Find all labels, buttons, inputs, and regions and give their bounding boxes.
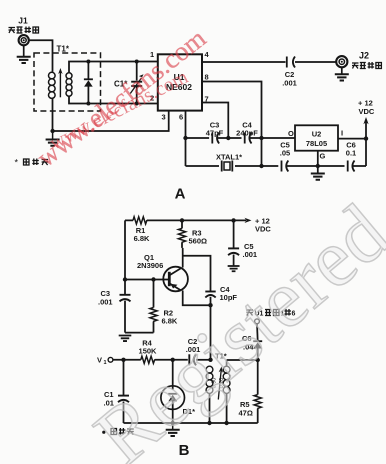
- svg-text:78L05: 78L05: [306, 139, 327, 148]
- junction C5 top: [231, 218, 235, 222]
- T1 primary winding: [49, 72, 56, 99]
- junction R3 top: [180, 218, 184, 222]
- wire pin8: [202, 82, 262, 139]
- svg-text:J2: J2: [359, 51, 369, 61]
- capacitor C6 (B): [256, 324, 259, 341]
- svg-text:*: *: [15, 158, 19, 168]
- node base/R2 junction: [151, 277, 155, 281]
- varactor diode in T1 box: [87, 62, 89, 104]
- svg-text:.001: .001: [98, 298, 113, 307]
- wire pin6 junction down to xtal rail: [185, 138, 187, 166]
- node C2/T1 junction: [208, 358, 212, 362]
- node T1 primary bottom: [207, 421, 211, 425]
- +12 VDC arrow B: [245, 218, 252, 223]
- wire C2 to J2: [295, 61, 336, 63]
- svg-text:VDC: VDC: [255, 225, 271, 234]
- svg-text:.001: .001: [243, 250, 258, 259]
- svg-text:47Ω: 47Ω: [239, 409, 253, 418]
- +12 top rail: [125, 219, 246, 221]
- voltage regulator U2 78L05: [295, 125, 338, 150]
- wire pin6 down: [185, 111, 187, 138]
- svg-text:3: 3: [162, 113, 166, 122]
- node pin8 junction: [259, 136, 263, 140]
- ground symbol B: [172, 423, 174, 430]
- wire secondary top to U1 pin1: [88, 61, 157, 63]
- node C6/R5 junction: [256, 358, 260, 362]
- wire pin7: [202, 103, 228, 139]
- transformer T1 dashed box: [34, 53, 101, 111]
- svg-text:VDC: VDC: [359, 107, 375, 116]
- junction primary/ground: [50, 129, 54, 133]
- svg-text:A: A: [175, 186, 186, 203]
- capacitor C2 (B): [188, 354, 190, 365]
- capacitor C3 (B): [124, 280, 126, 295]
- node ground rail crossing: [316, 164, 320, 168]
- svg-text:6.8K: 6.8K: [162, 317, 178, 326]
- ground under U2: [311, 174, 325, 180]
- node V1/C1 junction: [121, 358, 125, 362]
- wire pin3 to ground rail: [53, 111, 169, 131]
- connector J2: [336, 56, 347, 67]
- svg-text:U2: U2: [312, 130, 322, 139]
- crystal XTAL1: [219, 158, 235, 174]
- +12 VDC supply arrow: [365, 122, 367, 139]
- emitter wire: [183, 291, 211, 306]
- node pin6 junction: [183, 136, 187, 140]
- xtal ground rail: [186, 165, 367, 167]
- T1B winding arrow: [218, 371, 221, 400]
- tuning arrow in T1: [59, 72, 61, 98]
- node pin7 junction: [226, 136, 230, 140]
- node C1 top: [135, 60, 139, 64]
- wire secondary bottom to U1 pin2: [88, 103, 157, 105]
- capacitor C5: [278, 161, 288, 172]
- svg-text:6.8K: 6.8K: [134, 234, 150, 243]
- emitter to T1 wire: [210, 305, 212, 360]
- node R4/D1 junction: [171, 358, 175, 362]
- wire x261.5 down: [261, 138, 263, 166]
- capacitor C4: [205, 291, 215, 293]
- wire I rail to +12: [338, 138, 366, 140]
- svg-text:2N3906: 2N3906: [137, 261, 163, 270]
- resistor R2: [153, 280, 155, 308]
- ground under J1: [23, 45, 25, 56]
- capacitor C5 (B): [233, 220, 235, 248]
- svg-text:T1*: T1*: [57, 45, 70, 54]
- output terminal 到U1: [255, 319, 260, 324]
- ground under C3: [125, 332, 154, 334]
- T1 secondary top lead: [69, 62, 88, 74]
- node varactor top: [86, 60, 90, 64]
- capacitor C6: [345, 161, 355, 172]
- svg-text:.001: .001: [282, 79, 297, 88]
- note 见正文 B: [102, 431, 105, 434]
- svg-text:8: 8: [205, 73, 209, 82]
- svg-text:G: G: [320, 152, 326, 161]
- collector wire: [182, 248, 184, 268]
- svg-text:6: 6: [179, 113, 183, 122]
- svg-text:47pF: 47pF: [206, 129, 224, 138]
- svg-text:240pF: 240pF: [236, 129, 258, 138]
- T1B right winding: [226, 360, 228, 366]
- capacitor C1 (B): [123, 360, 125, 395]
- T1 primary bottom lead: [52, 99, 54, 131]
- svg-text:XTAL1*: XTAL1*: [216, 153, 242, 162]
- node +12 junction: [364, 136, 368, 140]
- node xtal right junction: [259, 164, 263, 168]
- svg-text:0.1: 0.1: [346, 149, 356, 158]
- capacitor C4: [242, 133, 252, 144]
- ground at T1 primary: [46, 140, 60, 146]
- T1 secondary winding: [66, 73, 72, 96]
- svg-text:V: V: [97, 356, 102, 365]
- C4 branch wire: [183, 256, 211, 291]
- node C1 bottom: [135, 102, 139, 106]
- node varactor bottom: [86, 102, 90, 106]
- label 射频输入: [9, 27, 39, 34]
- 5V rail wire: [186, 137, 296, 139]
- T1B left winding: [206, 366, 213, 393]
- varactor diode D1: [172, 360, 174, 390]
- node base/C3 junction: [123, 277, 127, 281]
- ground under J2: [341, 68, 343, 74]
- node D1/ground junction: [171, 421, 175, 425]
- svg-text:560Ω: 560Ω: [189, 237, 208, 246]
- svg-text:I: I: [341, 129, 343, 138]
- node T1 secondary bottom: [224, 421, 228, 425]
- base wire: [125, 279, 169, 281]
- svg-text:J1: J1: [18, 16, 28, 26]
- resistor R3: [181, 220, 183, 228]
- svg-text:O: O: [288, 129, 294, 138]
- wire pin4 to C2: [202, 61, 286, 63]
- svg-text:1: 1: [104, 360, 107, 366]
- node emitter/C4 junction: [208, 303, 212, 307]
- transistor Q1 2N3906: [163, 267, 188, 292]
- connector J1: [19, 35, 29, 45]
- svg-text:.05: .05: [280, 149, 290, 158]
- left bias wire: [124, 220, 126, 279]
- ground rail B: [124, 422, 258, 424]
- capacitor C3: [209, 133, 219, 144]
- wire T1B secondary to output node: [227, 359, 258, 361]
- resistor R5: [257, 360, 259, 395]
- wire J1 to T1 primary: [29, 40, 53, 72]
- capacitor C2: [286, 57, 288, 68]
- resistor R1: [133, 217, 147, 224]
- wire U2 G to ground: [317, 151, 319, 173]
- op-amp U1 NE602 box: [158, 54, 202, 110]
- label 射频输出: [352, 62, 381, 69]
- T1 secondary bottom lead: [69, 96, 88, 104]
- resistor R4: [141, 356, 155, 363]
- variable capacitor C1: [136, 62, 138, 104]
